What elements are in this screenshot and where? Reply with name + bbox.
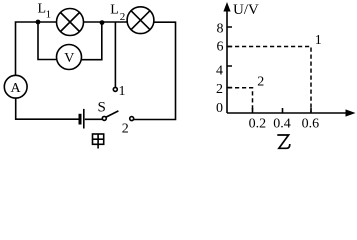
svg-text:0.4: 0.4: [273, 117, 291, 132]
svg-text:2: 2: [122, 122, 129, 137]
svg-text:6: 6: [217, 40, 224, 55]
svg-text:V: V: [64, 51, 74, 66]
svg-text:2: 2: [257, 74, 264, 89]
svg-text:8: 8: [217, 22, 224, 37]
svg-text:U/V: U/V: [233, 2, 259, 18]
svg-text:2: 2: [216, 82, 223, 97]
svg-text:0.6: 0.6: [302, 117, 320, 132]
svg-text:S: S: [98, 100, 106, 116]
svg-text:A: A: [11, 81, 22, 96]
svg-text:1: 1: [315, 33, 322, 48]
svg-text:2: 2: [120, 11, 126, 23]
svg-text:0.2: 0.2: [249, 117, 267, 132]
svg-text:1: 1: [119, 84, 126, 99]
svg-text:1: 1: [46, 8, 52, 20]
svg-text:L: L: [110, 3, 119, 18]
svg-text:0: 0: [216, 101, 223, 116]
svg-text:4: 4: [216, 64, 223, 79]
